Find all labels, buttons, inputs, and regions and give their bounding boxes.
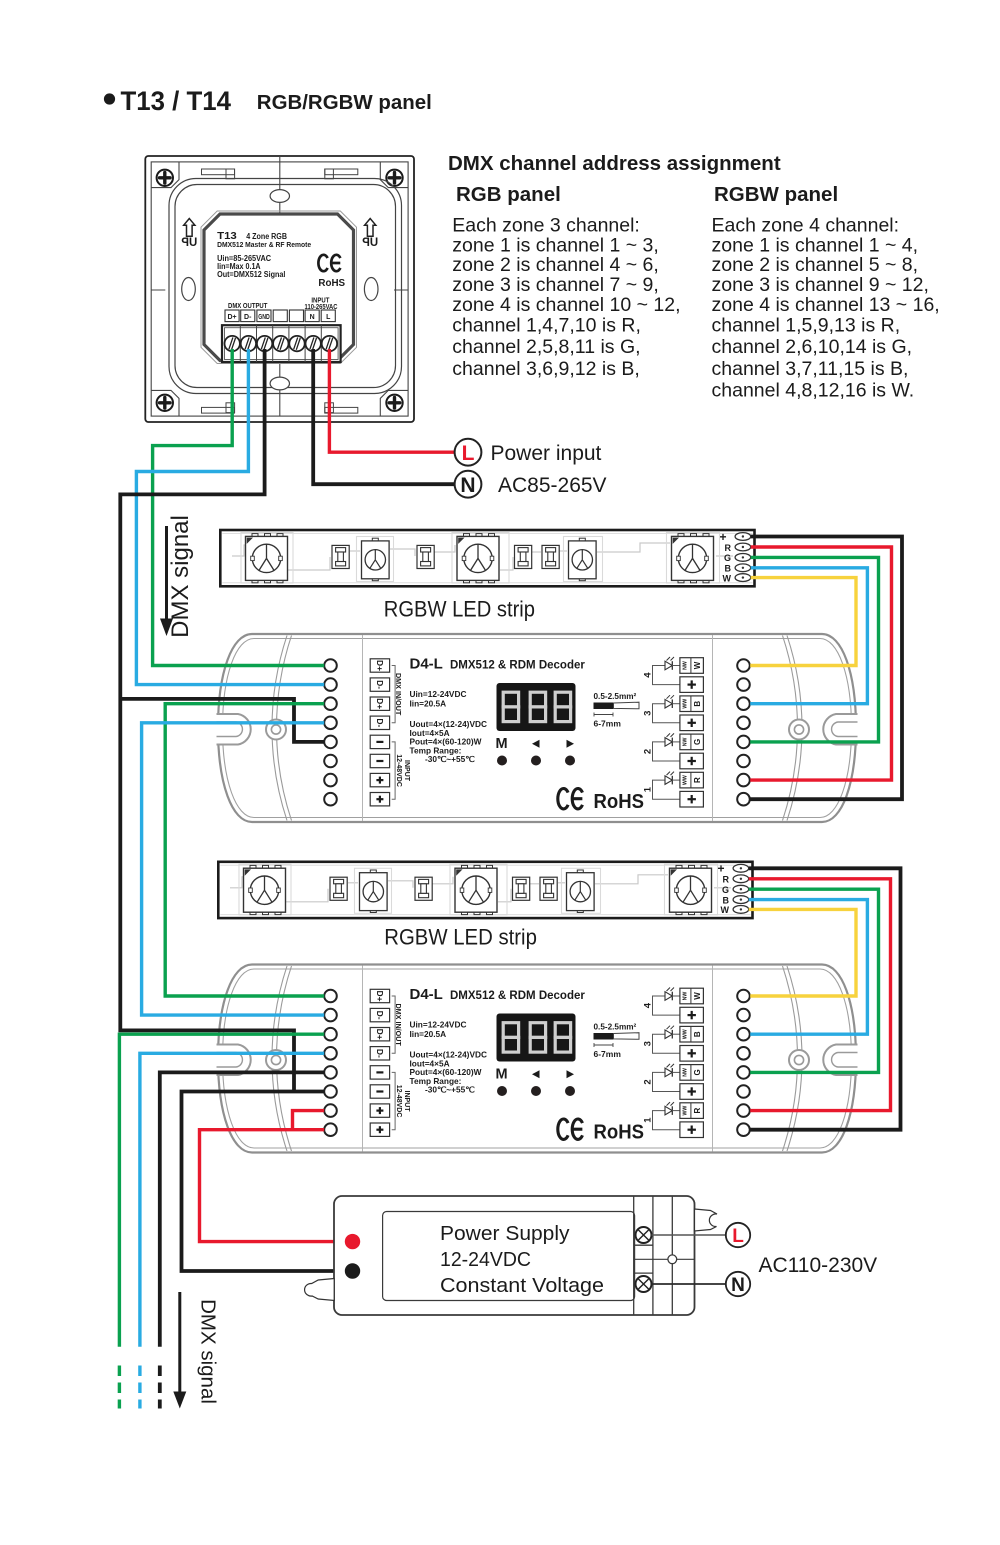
panel inner frame [151,162,408,416]
svg-text:G: G [693,739,702,745]
power supply screw L [636,1227,652,1243]
svg-text:DMX512 & RDM Decoder: DMX512 & RDM Decoder [450,990,585,1002]
svg-text:DMX signal: DMX signal [167,515,194,638]
svg-text:N: N [310,314,315,321]
svg-text:RGBW panel: RGBW panel [714,183,838,206]
decoder 2 channel 3 [653,1034,680,1053]
svg-text:N: N [460,474,475,497]
svg-text:Power input: Power input [491,442,602,465]
svg-text:DMX512 & RDM Decoder: DMX512 & RDM Decoder [450,660,585,672]
svg-text:DMX signal: DMX signal [197,1299,220,1404]
svg-text:-30℃~+55℃: -30℃~+55℃ [425,754,475,764]
svg-text:NW: NW [682,737,688,746]
svg-text:WW: WW [682,775,688,785]
svg-text:W: W [723,573,732,583]
svg-text:D-: D- [375,718,385,727]
svg-text:G: G [693,1069,702,1075]
svg-text:DMX OUTPUT: DMX OUTPUT [228,301,268,310]
svg-text:DMX512 Master & RF Remote: DMX512 Master & RF Remote [217,240,311,249]
decoder 1 power input terminal boxes [370,735,389,748]
panel corner screw pads [151,162,179,188]
strip 2 resistor [513,877,530,900]
decoder 1 mounting slot left [217,714,251,745]
svg-text:RGBW LED strip: RGBW LED strip [384,925,537,950]
power input L circle [455,439,482,466]
svg-text:channel 2,6,10,14 is G,: channel 2,6,10,14 is G, [712,336,913,358]
svg-text:Iin=20.5A: Iin=20.5A [410,699,447,709]
decoder 1 left terminals [324,659,337,672]
svg-text:zone 1 is channel 1 ~ 3,: zone 1 is channel 1 ~ 3, [452,234,659,256]
power supply label plate [383,1212,635,1301]
wire green G strip2 [749,889,879,1072]
panel screw bottom-right [386,395,402,411]
wire black + strip2 [749,868,901,1129]
decoder 1 end seams [272,636,287,821]
decoder D4-L unit 2 body [218,965,856,1153]
svg-text:zone 4 is channel 13 ~ 16,: zone 4 is channel 13 ~ 16, [712,294,940,316]
strip 1 footprint outlines [241,533,293,584]
svg-text:D-: D- [375,1011,385,1020]
svg-text:zone 3 is channel 9 ~ 12,: zone 3 is channel 9 ~ 12, [712,274,929,296]
svg-text:RGB panel: RGB panel [456,183,561,206]
wire black DMX GND out decoder2 [160,1072,324,1346]
svg-text:1: 1 [643,786,654,792]
dashed DMX continuation blue [138,1366,141,1409]
svg-text:RGB/RGBW panel: RGB/RGBW panel [257,92,432,114]
svg-text:RGBW LED strip: RGBW LED strip [384,597,535,622]
dashed DMX continuation green [118,1366,121,1409]
svg-text:M: M [496,1067,508,1083]
svg-text:3: 3 [643,711,654,716]
panel CE mark [318,255,327,271]
svg-text:N: N [731,1275,745,1296]
strip 2 RGBW LED package [462,865,468,868]
svg-text:D-: D- [244,314,252,321]
strip 2 white LED package [577,870,583,873]
wire blue B strip1 [750,568,867,704]
panel rounded dome frames [169,179,402,394]
decoder 2 DMX IN/OUT terminal boxes [370,989,389,1002]
strip 1 solder pads [735,533,751,541]
power supply screw N [636,1276,652,1292]
svg-text:2: 2 [643,749,654,754]
panel screw bottom-left [157,395,173,411]
strip 1 resistor [417,545,434,568]
svg-text:W: W [693,992,702,1000]
decoder 2 case screw left [266,1050,286,1070]
svg-text:INPUT: INPUT [403,1091,410,1113]
svg-text:12-24VDC: 12-24VDC [440,1249,531,1271]
svg-text:6-7mm: 6-7mm [594,1049,622,1059]
svg-text:channel 2,5,8,11 is G,: channel 2,5,8,11 is G, [452,336,640,358]
decoder 2 power input terminal boxes [370,1066,389,1079]
svg-text:B: B [725,564,732,574]
decoder 2 channel 1 [653,1111,680,1130]
decoder D4-L unit 1 body [218,634,856,822]
DMX signal arrow top [165,526,168,622]
svg-text:B: B [723,895,730,905]
svg-text:W: W [693,661,702,669]
RGBW LED strip 2 body [218,862,752,918]
svg-text:L: L [732,1226,744,1247]
dashed DMX continuation black [158,1366,162,1409]
wire yellow W strip2 [749,909,856,996]
strip 2 footprint outlines [239,864,291,915]
panel T13 outer housing [145,156,414,422]
svg-text:DMX channel address assignment: DMX channel address assignment [448,152,781,175]
svg-text:R: R [693,1107,702,1113]
panel screw top-left [157,170,173,186]
strip 2 solder pads [733,864,749,872]
strip 1 RGBW LED package [252,534,258,537]
panel bottom mounting tabs [202,407,235,413]
wire black GND branch decoder1 [120,699,324,742]
wire black GND panel trunk [120,349,294,1092]
svg-text:2: 2 [643,1079,654,1084]
strip 2 resistor [415,877,432,900]
svg-text:D+: D+ [375,990,385,1001]
svg-text:L: L [462,442,475,465]
decoder 2 case screw right [789,1050,809,1070]
PSU N circle [726,1272,750,1296]
svg-text:D4-L: D4-L [410,986,443,1003]
decoder 1 case screw right [789,720,809,740]
svg-text:12-48VDC: 12-48VDC [395,1085,402,1118]
svg-text:D-: D- [375,680,385,689]
svg-text:W: W [721,905,730,915]
svg-text:D+: D+ [375,660,385,671]
power supply box [334,1196,695,1315]
svg-text:G: G [722,885,729,895]
decoder 1 right terminals [737,659,750,672]
strip 1 resistor [332,545,349,568]
panel top center oval [279,156,281,190]
svg-text:L: L [326,314,331,321]
svg-text:DMX IN/OUT: DMX IN/OUT [394,1003,403,1046]
svg-text:0.5-2.5mm²: 0.5-2.5mm² [594,1023,637,1032]
svg-text:D+: D+ [375,1029,385,1040]
svg-text:WW: WW [682,1029,688,1039]
svg-text:zone 2 is channel 4 ~ 6,: zone 2 is channel 4 ~ 6, [452,254,659,276]
wire black N to power input [313,349,455,484]
svg-text:channel 4,8,12,16 is W.: channel 4,8,12,16 is W. [712,380,915,402]
svg-text:B: B [693,701,702,707]
svg-text:D4-L: D4-L [410,656,443,673]
svg-text:R: R [693,777,702,783]
decoder 1 inner area separators [362,635,364,821]
svg-text:Out=DMX512 Signal: Out=DMX512 Signal [217,270,285,279]
decoder 2 left terminals [324,990,337,1003]
decoder 2 end seams [272,966,287,1151]
decoder 2 channel 2 [653,1072,680,1091]
svg-text:4: 4 [643,672,654,678]
wire red V+ decoder2 to PSU [200,1130,347,1242]
power supply mid line and node [634,1258,695,1260]
decoder 1 case screw left [266,720,286,740]
panel mid split lines [151,289,165,291]
strip 2 white LED package [370,870,376,873]
strip 2 resistor [330,877,347,900]
PSU L circle [726,1223,750,1247]
panel UP arrow right [365,219,376,237]
svg-text:+: + [717,862,724,876]
svg-text:UP: UP [362,237,378,249]
svg-text:D-: D- [375,1049,385,1058]
svg-text:Each zone 4 channel:: Each zone 4 channel: [712,215,900,237]
svg-text:zone 2 is channel 5 ~ 8,: zone 2 is channel 5 ~ 8, [712,254,919,276]
decoder 2 right terminals [737,990,750,1003]
decoder 2 inner area separators [362,966,364,1152]
svg-text:zone 4 is channel 10 ~ 12,: zone 4 is channel 10 ~ 12, [452,294,680,316]
svg-text:12-48VDC: 12-48VDC [395,754,402,787]
power supply terminal section [633,1197,635,1315]
wire green G strip1 [750,557,878,742]
svg-text:channel 3,6,9,12 is B,: channel 3,6,9,12 is B, [452,358,640,380]
svg-text:zone 3 is channel 7 ~ 9,: zone 3 is channel 7 ~ 9, [452,274,659,296]
svg-text:UP: UP [181,237,197,249]
strip 1 resistor [515,545,532,568]
wire green D+ panel to decoder1 [153,349,325,666]
svg-text:0.5-2.5mm²: 0.5-2.5mm² [594,692,637,701]
svg-text:NW: NW [682,661,688,670]
wire red R strip1 [750,547,891,780]
svg-text:R: R [723,875,730,885]
panel left side oval [182,278,196,301]
svg-text:Power Supply: Power Supply [440,1223,570,1245]
strip 1 white LED package [579,538,585,541]
strip 2 RGBW LED package [676,865,682,868]
PSU V- dot [345,1263,360,1278]
svg-text:1: 1 [643,1117,654,1123]
wire red R strip2 [749,879,891,1111]
svg-text:Uin=12-24VDC: Uin=12-24VDC [410,1020,467,1030]
svg-text:channel 1,5,9,13 is R,: channel 1,5,9,13 is R, [712,315,901,337]
svg-text:R: R [725,543,732,553]
svg-text:6-7mm: 6-7mm [594,719,622,729]
wire blue chain decoder1 to decoder2 [142,723,325,1015]
PSU V+ dot [345,1234,360,1249]
strip 1 pcb traces [232,545,287,556]
panel right side oval [364,278,378,301]
decoder 1 channel 2 [653,742,680,761]
decoder 1 channel 4 [653,666,680,685]
svg-text:NW: NW [682,1068,688,1077]
svg-text:RoHS: RoHS [318,277,345,289]
svg-text:GND: GND [258,314,270,321]
DMX signal arrow bottom [178,1292,181,1394]
svg-text:G: G [724,553,731,563]
decoder 1 CE mark [558,789,568,809]
svg-text:channel 1,4,7,10 is R,: channel 1,4,7,10 is R, [452,315,641,337]
svg-text:WW: WW [682,1106,688,1116]
wire black V- decoder2 to PSU [182,1092,347,1272]
panel terminal screws [225,336,240,351]
decoder 1 DMX IN/OUT terminal boxes [370,659,389,672]
svg-text:channel 3,7,11,15 is B,: channel 3,7,11,15 is B, [712,358,909,380]
svg-text:DMX IN/OUT: DMX IN/OUT [394,673,403,716]
wire yellow W strip1 [750,578,856,666]
strip 1 RGBW LED package [678,534,684,537]
svg-text:Constant Voltage: Constant Voltage [440,1275,604,1297]
strip 1 white LED package [372,538,378,541]
svg-text:Each zone 3 channel:: Each zone 3 channel: [452,215,640,237]
panel terminal label boxes [225,310,239,322]
wire red L to power input [329,349,455,452]
panel bottom center oval [279,361,281,377]
svg-text:INPUT: INPUT [403,760,410,782]
power supply ear bottom left [305,1279,335,1301]
wire red V+ jumper T7 [293,1111,325,1130]
wire screw to L circle [652,1234,726,1236]
strip 2 RGBW LED package [250,865,256,868]
svg-text:RoHS: RoHS [594,1122,645,1144]
wire screw to N circle [652,1283,726,1285]
svg-text:NW: NW [682,992,688,1001]
svg-text:Iin=20.5A: Iin=20.5A [410,1029,447,1039]
panel top mounting tabs [202,169,235,175]
svg-text:+: + [719,530,726,544]
decoder 2 mounting slot right [823,1045,857,1076]
decoder 1 7-segment display [497,683,576,731]
svg-text:D+: D+ [227,314,236,321]
panel UP arrow left [184,219,195,237]
svg-text:M: M [496,736,508,752]
strip 2 resistor [540,877,557,900]
wire blue DMX out decoder2 [140,1053,324,1347]
svg-text:-30℃~+55℃: -30℃~+55℃ [425,1085,475,1095]
svg-text:3: 3 [643,1041,654,1046]
svg-text:Uin=12-24VDC: Uin=12-24VDC [410,689,467,699]
wire blue B strip2 [749,900,868,1035]
svg-text:4: 4 [643,1002,654,1008]
wire blue D- panel to decoder1 [136,349,324,685]
panel terminal block [222,325,341,362]
RGBW LED strip 1 body [220,530,754,586]
svg-text:D+: D+ [375,698,385,709]
decoder 2 CE mark [558,1119,568,1139]
svg-text:zone 1 is channel 1 ~ 4,: zone 1 is channel 1 ~ 4, [712,234,919,256]
decoder 1 channel 1 [653,780,680,799]
svg-text:AC110-230V: AC110-230V [759,1254,878,1277]
svg-text:AC85-265V: AC85-265V [498,474,607,497]
decoder 1 channel 3 [653,704,680,723]
svg-text:B: B [693,1031,702,1037]
strip 1 resistor [542,545,559,568]
svg-text:RoHS: RoHS [594,791,645,813]
panel screw top-right [386,170,402,186]
power supply ear top right [695,1209,718,1231]
svg-text:WW: WW [682,699,688,709]
svg-text:T13 / T14: T13 / T14 [121,86,232,116]
strip 1 RGBW LED package [464,534,470,537]
strip 2 pcb traces [230,877,285,888]
decoder 1 mounting slot right [823,714,857,745]
wire black + strip1 [750,537,902,800]
title bullet [104,93,115,104]
wire green chain decoder1 to decoder2 [165,704,324,996]
wire green DMX out decoder2 [119,1034,324,1347]
decoder 2 channel 4 [653,996,680,1015]
decoder 2 7-segment display [497,1014,576,1062]
decoder 2 mounting slot left [217,1045,251,1076]
panel touch square bevel [201,211,357,364]
power input N circle [455,471,482,498]
